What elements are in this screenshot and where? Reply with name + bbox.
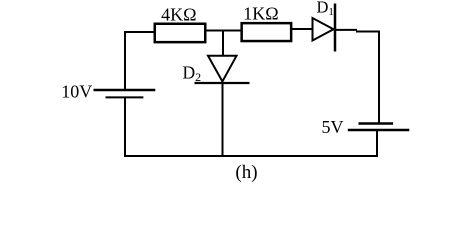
- wire D1 to right corner: [334, 30, 380, 32]
- wire between resistors: [205, 30, 242, 32]
- wire right rail upper: [378, 31, 380, 124]
- wire left rail lower: [124, 97, 126, 157]
- diode D2: [195, 56, 250, 83]
- svg-text:5V: 5V: [322, 117, 344, 137]
- wire junction to D2: [222, 30, 224, 57]
- svg-text:10V: 10V: [61, 82, 92, 102]
- wire bottom rail: [124, 155, 378, 157]
- wire right rail lower: [376, 130, 378, 158]
- wire top-left horizontal: [124, 31, 155, 33]
- resistor 1KΩ: [242, 23, 292, 41]
- wire left rail upper: [124, 31, 126, 90]
- resistor 4KΩ: [155, 24, 206, 42]
- battery 5V: [348, 124, 410, 131]
- svg-text:4KΩ: 4KΩ: [161, 5, 196, 25]
- wire D2 to bottom rail: [222, 82, 224, 157]
- diode D1: [313, 4, 336, 52]
- svg-text:1KΩ: 1KΩ: [243, 3, 278, 23]
- wire 1K to D1: [291, 28, 313, 30]
- battery 10V: [94, 90, 156, 97]
- svg-text:(h): (h): [235, 162, 257, 183]
